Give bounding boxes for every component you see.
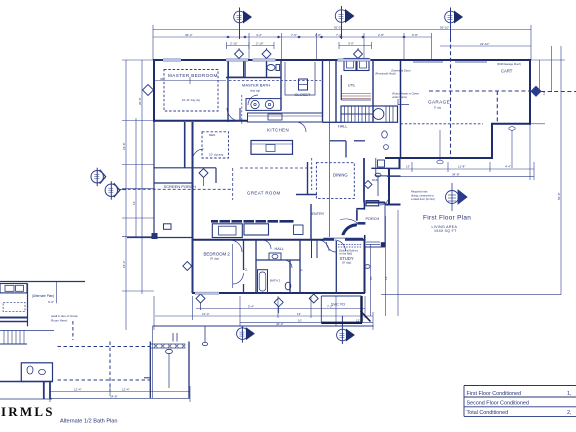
svg-text:18'-4": 18'-4"	[122, 260, 126, 268]
svg-text:12'-4": 12'-4"	[122, 388, 130, 392]
wall house south	[192, 292, 365, 294]
window diamond east annex	[364, 181, 372, 189]
svg-text:BATH 2: BATH 2	[270, 279, 281, 283]
svg-text:(Alternate Plan): (Alternate Plan)	[32, 294, 54, 298]
svg-text:12'-2": 12'-2"	[356, 318, 364, 322]
master bath toilet	[267, 65, 280, 71]
svg-text:10'-11' tray clg: 10'-11' tray clg	[182, 98, 200, 102]
svg-text:22'-10": 22'-10"	[480, 42, 489, 46]
svg-text:Room Here): Room Here)	[51, 319, 67, 323]
interior walls upper band	[226, 60, 373, 122]
section marker bubble top-left	[234, 8, 252, 40]
hall north wall	[323, 121, 342, 123]
svg-text:5'-4": 5'-4"	[248, 304, 254, 308]
svg-text:CL: CL	[300, 268, 304, 272]
dimension line top overall	[153, 25, 531, 60]
kitchen island	[251, 141, 293, 155]
dimension lines bottom of plan	[153, 296, 374, 330]
svg-text:CART: CART	[501, 69, 513, 74]
entry dashed line	[311, 158, 313, 190]
window glyphs on top wall	[163, 59, 371, 61]
svc yard	[321, 296, 370, 323]
svg-text:ENTRY: ENTRY	[312, 212, 325, 216]
bath closet dashed dim	[229, 80, 321, 82]
svg-text:20'-8": 20'-8"	[138, 97, 142, 105]
alternate plan porch structure	[144, 333, 189, 398]
wall top	[153, 59, 531, 61]
screen porch walls	[127, 122, 216, 293]
wall master bottom	[153, 120, 247, 122]
foam heater leader	[398, 99, 409, 105]
master bath vanity	[246, 99, 281, 111]
alternate plan top line	[0, 282, 85, 400]
svg-text:2'-8": 2'-8"	[315, 33, 321, 37]
wall house east upper	[399, 158, 401, 168]
svg-text:4'-2": 4'-2"	[256, 33, 262, 37]
wall cart step vertical	[491, 123, 493, 158]
svg-text:KITCHEN: KITCHEN	[267, 128, 289, 133]
wall master left	[153, 60, 155, 122]
porch east edge	[384, 203, 386, 248]
svg-text:16': 16'	[132, 201, 136, 205]
svg-text:12': 12'	[384, 276, 388, 280]
study door gap	[334, 238, 345, 241]
stairs	[341, 106, 398, 122]
wall mud room east	[388, 168, 390, 204]
svg-text:SVC YD: SVC YD	[331, 303, 345, 307]
bath2 vanity	[269, 253, 281, 260]
wall mud room south	[385, 204, 401, 206]
svg-text:Total Conditioned: Total Conditioned	[467, 410, 509, 416]
svg-text:13': 13'	[297, 312, 301, 316]
window dim brackets	[227, 45, 250, 47]
section marker bubble top-center	[335, 6, 354, 39]
svg-text:12'-4": 12'-4"	[202, 312, 210, 316]
svg-text:UTIL: UTIL	[348, 84, 355, 88]
section marker bubble left-a	[91, 168, 106, 187]
svg-text:SCREEN PORCH: SCREEN PORCH	[164, 184, 196, 189]
washer dryer	[344, 59, 369, 71]
svg-text:MASTER BEDROOM: MASTER BEDROOM	[168, 73, 218, 78]
master bedroom interior dim	[154, 77, 226, 84]
util shelves	[342, 94, 372, 99]
svg-text:13': 13'	[406, 165, 410, 169]
cart roof dashed	[401, 38, 576, 158]
util room wall	[340, 75, 342, 100]
svg-text:4'-4": 4'-4"	[505, 165, 511, 169]
mudroom fixtures	[364, 158, 401, 206]
den dashed room	[202, 132, 229, 158]
svg-text:7'-6": 7'-6"	[291, 33, 297, 37]
alternate plan dims	[50, 326, 190, 402]
powder room fixtures	[382, 131, 388, 138]
svg-text:CLOSET: CLOSET	[295, 92, 312, 97]
master bedroom dashed ceiling	[164, 70, 218, 112]
svg-text:55'-10": 55'-10"	[440, 25, 449, 29]
porch steps	[366, 241, 380, 243]
svg-text:HALL: HALL	[338, 125, 348, 129]
svg-text:10': 10'	[369, 276, 373, 280]
screen porch posts	[152, 224, 171, 239]
section marker bubble bottom-a	[237, 326, 255, 343]
svg-text:MUD: MUD	[372, 178, 378, 182]
dimension lines right of study	[371, 210, 399, 316]
wall study east	[364, 240, 366, 293]
svg-text:2,: 2,	[567, 410, 572, 416]
svg-text:24'-8": 24'-8"	[122, 142, 126, 150]
bedroom band interior walls	[233, 240, 337, 293]
kitchen counter top	[248, 113, 323, 122]
svg-text:7'-2": 7'-2"	[336, 33, 342, 37]
svg-text:DEN: DEN	[209, 133, 215, 137]
svg-text:56'-8": 56'-8"	[557, 192, 561, 200]
svg-text:34'-8": 34'-8"	[452, 172, 460, 176]
porch south edge	[365, 246, 385, 248]
window diamond left wall	[143, 85, 154, 96]
door arcs	[193, 95, 390, 284]
wall garage right	[529, 60, 531, 125]
svg-text:44'-4": 44'-4"	[276, 322, 284, 326]
dimension lines right side	[381, 46, 565, 295]
great room south window header	[211, 220, 294, 223]
wall entry step	[356, 208, 364, 210]
svg-text:dining; measured to: dining; measured to	[411, 193, 434, 197]
wall entry east upper	[363, 203, 365, 210]
alternate plan dashed porch	[58, 321, 151, 391]
section marker bubble top-right	[445, 8, 463, 42]
dining dashed room	[316, 163, 354, 199]
wall cart step horizontal	[492, 123, 530, 125]
front door open panel	[340, 219, 358, 235]
svg-text:3'-0": 3'-0"	[348, 41, 354, 45]
svg-text:Alternate 1/2 Bath Plan: Alternate 1/2 Bath Plan	[60, 419, 118, 425]
wall garage bottom	[385, 157, 493, 159]
study builtins dashed	[338, 244, 362, 246]
bath2 toilet	[285, 282, 291, 290]
svg-text:12'-4": 12'-4"	[74, 388, 82, 392]
svg-text:GREAT ROOM: GREAT ROOM	[247, 191, 281, 196]
table bottom right	[464, 386, 576, 417]
fireplace builtin left	[212, 224, 303, 238]
svg-text:12': 12'	[542, 91, 546, 95]
svg-text:GARAGE: GARAGE	[428, 100, 450, 105]
great room dashed ceiling line	[118, 168, 313, 200]
svg-text:First Floor Plan: First Floor Plan	[423, 215, 471, 222]
entry ledge	[358, 222, 366, 225]
svg-text:MASTER BATH: MASTER BATH	[242, 83, 270, 88]
bath2 tub	[258, 270, 268, 294]
window diamond right cart	[531, 86, 541, 96]
porch post	[381, 242, 386, 247]
oval dimension tags	[202, 173, 381, 345]
svg-text:(Drift/Garage Roof): (Drift/Garage Roof)	[497, 62, 521, 66]
closet cabinet	[299, 79, 308, 90]
wall porch north	[365, 202, 385, 204]
svg-text:11'-8": 11'-8"	[458, 165, 465, 169]
svg-text:10' clg avg: 10' clg avg	[209, 153, 224, 157]
bottom small window diamonds	[183, 48, 363, 313]
svg-text:on this Wall): on this Wall)	[339, 253, 352, 256]
svg-text:IRMLS: IRMLS	[1, 404, 55, 419]
section marker first floor plan callout	[446, 183, 468, 211]
main outer walls	[153, 60, 531, 293]
wall bedroom band north	[192, 239, 365, 241]
garage door lines top	[413, 61, 487, 63]
svg-text:9'-6": 9'-6"	[48, 300, 54, 304]
svg-text:2'-10": 2'-10"	[256, 41, 264, 45]
svg-text:92'-2": 92'-2"	[334, 25, 342, 29]
bedroom2 south window	[195, 292, 219, 294]
entry walls	[296, 162, 363, 240]
wall entry east lower	[364, 235, 366, 240]
svg-text:PORCH: PORCH	[366, 217, 380, 221]
svg-text:(Premanufd Hood): (Premanufd Hood)	[375, 72, 396, 75]
svg-text:(wall in lieu of Great: (wall in lieu of Great	[51, 314, 78, 318]
svg-text:1,: 1,	[567, 391, 572, 397]
svg-text:6'-8": 6'-8"	[412, 33, 418, 37]
svg-text:HALL: HALL	[275, 247, 285, 251]
svg-text:9' clg: 9' clg	[434, 106, 441, 110]
svg-text:Second Floor Conditioned: Second Floor Conditioned	[467, 401, 529, 407]
svg-text:36'-4": 36'-4"	[185, 33, 193, 37]
svg-text:7'-2": 7'-2"	[327, 304, 333, 308]
svg-text:First Floor Conditioned: First Floor Conditioned	[467, 391, 522, 397]
svg-text:24'-8": 24'-8"	[110, 395, 118, 399]
svg-text:CL: CL	[245, 268, 249, 272]
section marker bubble bottom-b	[337, 316, 355, 344]
svg-text:a rated door (for fire): a rated door (for fire)	[411, 197, 435, 201]
svg-text:under Stairs): under Stairs)	[392, 95, 407, 99]
svg-text:2'-10": 2'-10"	[230, 41, 238, 45]
svg-text:10': 10'	[298, 318, 302, 322]
dimension lines left side	[122, 60, 154, 330]
svg-text:(tray clg): (tray clg)	[250, 88, 260, 92]
svg-text:36': 36'	[160, 77, 164, 81]
svg-text:2'-8": 2'-8"	[378, 33, 384, 37]
svg-text:Required exits: Required exits	[411, 190, 428, 194]
wall garage house divider	[400, 60, 402, 158]
tiny dimension texts	[48, 25, 511, 398]
svg-text:(9' clg): (9' clg)	[342, 261, 351, 265]
svg-text:DINING: DINING	[333, 173, 348, 178]
svg-text:(9' clg): (9' clg)	[210, 256, 219, 260]
section marker bubble left-b	[105, 181, 126, 200]
center axis line	[329, 60, 331, 237]
svg-text:1940 SQ FT: 1940 SQ FT	[434, 229, 457, 233]
hall dashed line	[241, 95, 243, 124]
